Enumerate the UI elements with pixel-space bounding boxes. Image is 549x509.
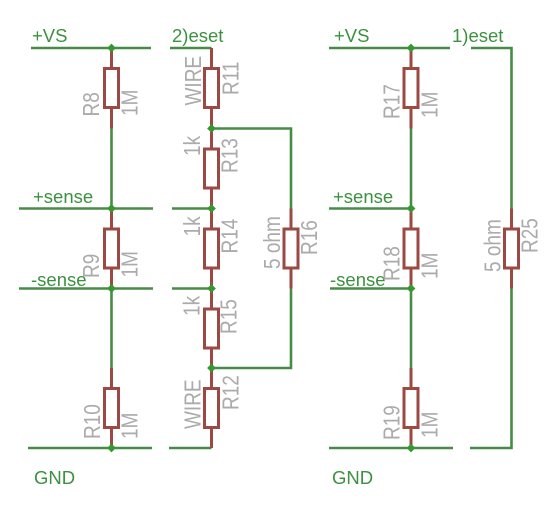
svg-text:WIRE: WIRE xyxy=(181,379,206,429)
svg-text:5 ohm: 5 ohm xyxy=(481,219,506,272)
resistor R9 xyxy=(105,209,119,289)
wire col3 -sense to R19 xyxy=(410,289,413,370)
resistor R15 xyxy=(205,289,219,369)
node +sense junction col2 xyxy=(207,204,216,213)
svg-text:R10: R10 xyxy=(80,404,105,439)
node junction below R15 xyxy=(207,364,216,373)
resistor R19 xyxy=(404,368,418,448)
wire net 2)eset stub to R11 xyxy=(170,47,212,50)
svg-text:1M: 1M xyxy=(118,90,143,116)
node +sense junction col1 xyxy=(107,204,116,213)
svg-text:5 ohm: 5 ohm xyxy=(260,216,285,269)
wire GND stub col2 xyxy=(169,447,212,450)
resistor R18 xyxy=(404,209,418,289)
node GND junction col3 xyxy=(407,444,416,453)
svg-text:+sense: +sense xyxy=(33,186,93,207)
wire net +VS left segment xyxy=(31,47,151,50)
svg-text:R11: R11 xyxy=(219,62,244,95)
svg-text:+VS: +VS xyxy=(334,25,369,46)
wire col1 -sense to R10 xyxy=(110,289,113,370)
svg-text:R8: R8 xyxy=(79,92,104,116)
wire +sense stub col2 xyxy=(172,207,212,210)
svg-text:R25: R25 xyxy=(518,218,543,253)
resistor R11 xyxy=(205,48,219,129)
svg-text:1k: 1k xyxy=(180,216,205,236)
svg-text:R17: R17 xyxy=(380,84,405,119)
svg-text:1M: 1M xyxy=(418,253,443,279)
wire net -sense right segment xyxy=(330,287,411,290)
node +sense junction col3 xyxy=(407,204,416,213)
svg-text:R18: R18 xyxy=(380,246,405,281)
svg-text:2)eset: 2)eset xyxy=(172,25,223,46)
wire net +sense left segment xyxy=(19,207,153,210)
node -sense junction col2 xyxy=(207,284,216,293)
node junction below R11 xyxy=(207,124,216,133)
wire branch R15/R12 node to R16 bottom xyxy=(212,289,292,369)
wire net +sense right segment xyxy=(329,207,411,210)
wire net +VS right segment xyxy=(329,47,450,50)
wire net -sense left segment xyxy=(19,287,153,290)
svg-text:1M: 1M xyxy=(418,412,443,438)
svg-text:1k: 1k xyxy=(180,136,205,156)
wire col1 R8 to +sense xyxy=(110,127,113,209)
svg-text:R13: R13 xyxy=(218,138,243,173)
resistor R8 xyxy=(105,48,119,129)
resistor R17 xyxy=(404,48,418,129)
svg-text:R15: R15 xyxy=(217,299,242,334)
svg-text:GND: GND xyxy=(34,467,75,488)
svg-text:R19: R19 xyxy=(380,405,405,440)
resistor R16 xyxy=(284,209,298,289)
wire -sense stub col2 xyxy=(172,287,212,290)
wire branch R11/R13 node to R16 top xyxy=(212,129,292,209)
resistor R12 xyxy=(205,368,219,448)
node -sense junction col1 xyxy=(107,284,116,293)
wire net GND right segment xyxy=(329,447,453,450)
wire net GND left segment xyxy=(28,447,152,450)
resistor R10 xyxy=(105,368,119,448)
node +VS junction at R8 top xyxy=(107,44,116,53)
node -sense junction col3 xyxy=(407,284,416,293)
svg-text:-sense: -sense xyxy=(31,269,87,290)
svg-text:+VS: +VS xyxy=(32,25,67,46)
resistor R14 xyxy=(205,209,219,289)
svg-text:1)eset: 1)eset xyxy=(452,25,503,46)
svg-text:1k: 1k xyxy=(180,296,205,316)
node +VS junction at R17 top xyxy=(407,44,416,53)
node GND junction col1 xyxy=(107,444,116,453)
svg-text:+sense: +sense xyxy=(333,186,393,207)
svg-text:R12: R12 xyxy=(219,375,244,410)
resistor R13 xyxy=(205,129,219,209)
svg-text:R14: R14 xyxy=(218,218,243,253)
wire col3 R17 to +sense xyxy=(410,127,413,209)
resistor R25 xyxy=(505,209,519,289)
svg-text:-sense: -sense xyxy=(330,269,386,290)
svg-text:1M: 1M xyxy=(118,413,143,439)
svg-text:WIRE: WIRE xyxy=(181,56,206,106)
svg-text:GND: GND xyxy=(332,467,373,488)
svg-text:R16: R16 xyxy=(297,220,322,255)
svg-text:R9: R9 xyxy=(79,254,104,278)
wire net 1)eset down to R25 xyxy=(471,48,512,209)
svg-text:1M: 1M xyxy=(118,251,143,277)
svg-text:1M: 1M xyxy=(418,92,443,118)
wire R25 bottom to GND xyxy=(470,289,512,449)
